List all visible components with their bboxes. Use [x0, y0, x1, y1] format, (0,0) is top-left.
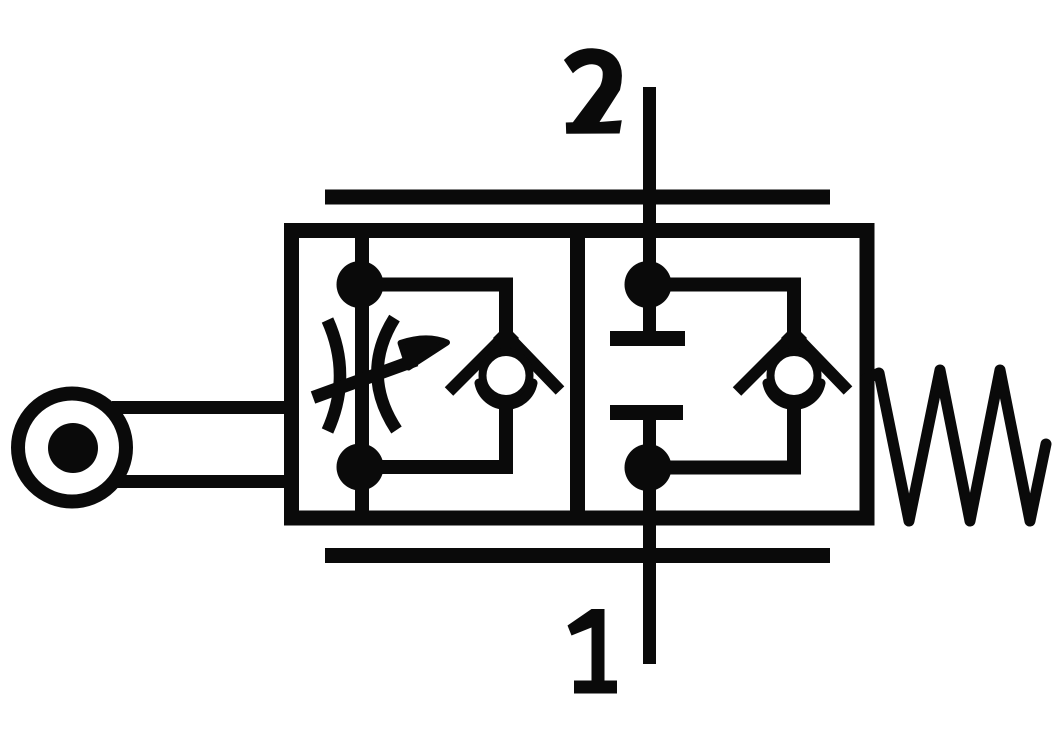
junction dot left-bottom: [337, 444, 384, 491]
rail top (upper position connection line): [325, 190, 830, 205]
throttle right arc: [377, 318, 396, 430]
port 2 label: [564, 48, 622, 134]
roller outer circle: [18, 394, 126, 502]
valve body box: [292, 231, 868, 519]
check valve CV1 seat apex fill: [493, 325, 519, 351]
check valve CV1 ball: [483, 352, 530, 399]
port 2 line: [643, 87, 656, 339]
wire: right cell bypass loop top: [648, 285, 794, 352]
port 1 label: [568, 609, 618, 694]
junction dot left-top: [337, 261, 384, 308]
throttle adjust arrowhead: [401, 338, 448, 367]
wire: left cell bypass loop top: [360, 285, 506, 352]
lever rod top line: [112, 401, 292, 414]
check valve CV2 ball: [771, 352, 818, 399]
junction dot right-top: [625, 261, 672, 308]
check valve CV2 seat apex fill: [781, 325, 807, 351]
check valve CV2 seat legs: [737, 335, 848, 392]
wire: right cell bypass loop bottom: [648, 397, 794, 468]
check valve CV1 cup arc: [479, 383, 533, 405]
roller pivot dot: [48, 423, 98, 473]
wire: left cell bypass loop bottom: [360, 397, 506, 467]
rail bottom (lower position connection line): [325, 548, 830, 563]
blocked port T bar bottom: [610, 405, 683, 420]
return spring: [866, 370, 1046, 521]
port 1 line: [643, 413, 656, 665]
wire: left cell vertical through-path: [355, 231, 369, 519]
check valve CV1 seat legs: [449, 335, 560, 392]
blocked port T bar top: [610, 331, 685, 346]
throttle adjust arrow shaft: [313, 360, 416, 398]
position divider: [570, 231, 585, 519]
lever rod bottom line: [112, 475, 292, 488]
junction dot right-bottom: [625, 444, 672, 491]
throttle left arc: [328, 320, 341, 431]
check valve CV2 cup arc: [767, 383, 821, 405]
